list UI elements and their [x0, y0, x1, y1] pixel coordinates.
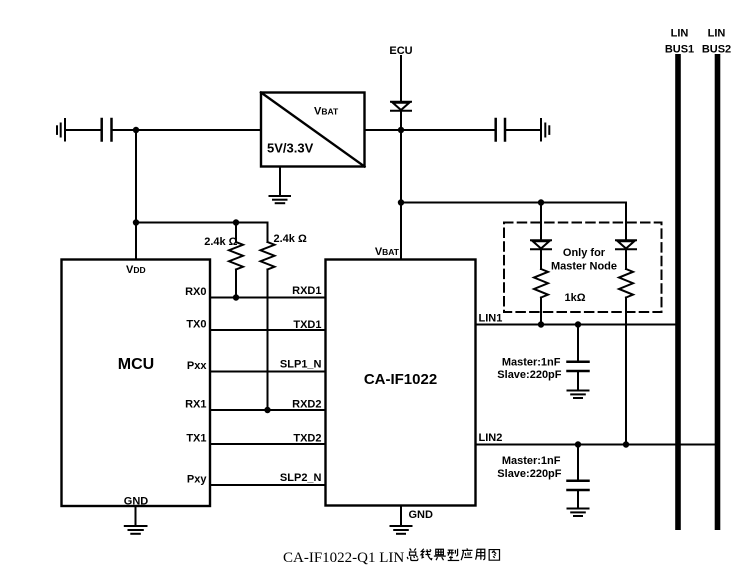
svg-text:RX0: RX0	[185, 286, 206, 298]
svg-text:LIN1: LIN1	[479, 313, 503, 325]
svg-text:CA-IF1022-Q1 LIN: CA-IF1022-Q1 LIN	[283, 550, 404, 566]
wire node to regulator U1	[136, 129, 261, 131]
ground top-right	[541, 119, 549, 141]
node VBAT branch junction	[398, 199, 404, 205]
node R1 top junction	[233, 219, 239, 225]
CJK glyph xing	[447, 549, 459, 561]
svg-text:TXD1: TXD1	[293, 319, 321, 331]
svg-text:BUS1: BUS1	[665, 44, 694, 56]
svg-text:Slave:220pF: Slave:220pF	[497, 468, 561, 480]
label LIN BUS1	[665, 28, 694, 56]
wire LIN2	[476, 444, 718, 446]
ground top-left	[57, 119, 65, 141]
wire C1 to node	[113, 129, 137, 131]
node LIN1-C3 junction	[575, 321, 581, 327]
CJK glyph dian	[434, 549, 446, 560]
CJK glyph xian	[421, 549, 432, 560]
CA-IF1022 box U2	[326, 260, 476, 506]
svg-text:Pxy: Pxy	[187, 474, 207, 486]
svg-text:5V/3.3V: 5V/3.3V	[267, 141, 314, 156]
U2 ground stem	[400, 506, 402, 526]
svg-text:VBAT: VBAT	[314, 106, 339, 118]
node resistor-rail junction	[133, 219, 139, 225]
node LIN2-R4 junction	[623, 441, 629, 447]
label Only for Master Node	[551, 247, 617, 273]
MCU ground stem	[135, 506, 137, 526]
svg-text:RXD1: RXD1	[292, 285, 321, 297]
wire ground to C1	[65, 129, 101, 131]
wire resistor rail	[136, 222, 268, 224]
wire Pxx-SLP1_N	[210, 371, 326, 373]
svg-text:TX1: TX1	[186, 433, 206, 445]
node R2 bottom junction	[264, 407, 270, 413]
wire U1 to VBAT node	[365, 129, 402, 131]
svg-text:2.4k Ω: 2.4k Ω	[274, 233, 307, 245]
svg-text:LIN: LIN	[708, 28, 726, 40]
diode D3	[616, 240, 636, 249]
wire TX0-TXD1	[210, 329, 326, 331]
resistor R4	[619, 269, 633, 298]
wire LIN1 to C3	[577, 325, 579, 362]
svg-text:TX0: TX0	[186, 319, 206, 331]
wire Pxy-SLP2_N	[210, 484, 326, 486]
svg-text:1kΩ: 1kΩ	[565, 292, 586, 304]
diode D1	[391, 102, 411, 111]
node LIN2-C4 junction	[575, 441, 581, 447]
resistor R1	[229, 223, 243, 298]
node left diode top junction	[538, 199, 544, 205]
svg-text:Master:1nF: Master:1nF	[502, 455, 561, 467]
CJK glyph zong	[407, 548, 418, 560]
wire RX0-RXD1	[210, 297, 326, 299]
wire R4 to LIN2	[625, 298, 627, 445]
node VBAT junction	[398, 127, 404, 133]
svg-text:Master Node: Master Node	[551, 261, 617, 273]
wire D2 to R3	[540, 249, 542, 269]
svg-text:Only for: Only for	[563, 247, 606, 259]
svg-text:CA-IF1022: CA-IF1022	[364, 371, 437, 388]
wire VBAT vertical to U2	[400, 130, 402, 260]
svg-text:SLP2_N: SLP2_N	[280, 472, 322, 484]
wire C3 to ground	[577, 371, 579, 390]
svg-text:BUS2: BUS2	[702, 44, 731, 56]
svg-text:VBAT: VBAT	[375, 246, 400, 258]
caption CJK: 总线典型应用图 (drawn strokes)	[407, 548, 499, 560]
resistor R2	[261, 223, 275, 411]
ground under C4	[568, 509, 589, 517]
svg-text:RX1: RX1	[185, 399, 206, 411]
svg-text:SLP1_N: SLP1_N	[280, 359, 322, 371]
wire ECU to diode D1	[400, 56, 402, 102]
node R1 bottom junction	[233, 294, 239, 300]
dashed box only-for-master-node	[504, 223, 662, 313]
svg-text:2.4k Ω: 2.4k Ω	[204, 236, 237, 248]
node VDD-rail junction	[133, 127, 139, 133]
capacitor C1	[102, 119, 112, 141]
svg-text:GND: GND	[409, 509, 434, 521]
wire VBAT branch to master-node circuit	[401, 203, 626, 241]
capacitor C4	[568, 481, 589, 490]
MCU box	[62, 260, 211, 507]
node LIN1-R3 junction	[538, 321, 544, 327]
svg-text:LIN: LIN	[671, 28, 689, 40]
svg-text:Slave:220pF: Slave:220pF	[497, 369, 561, 381]
diode D2	[531, 240, 551, 249]
svg-text:MCU: MCU	[118, 356, 154, 373]
wire C4 to ground	[577, 490, 579, 508]
CJK glyph yong	[476, 549, 485, 559]
wire to diode D2	[540, 203, 542, 241]
capacitor C3	[568, 362, 589, 371]
wire D1 to VBAT node	[400, 111, 402, 130]
CJK glyph tu	[489, 550, 499, 561]
regulator U1 box	[261, 93, 365, 167]
LIN BUS1 line	[675, 54, 681, 530]
ground under MCU	[125, 526, 147, 534]
wire VDD vertical	[135, 130, 137, 260]
wire LIN1	[476, 324, 679, 326]
CJK glyph ying	[461, 548, 472, 560]
wire node to C2	[401, 129, 495, 131]
wire LIN2 to C4	[577, 445, 579, 481]
U1 ground stem	[279, 167, 281, 196]
wire D3 to R4	[625, 249, 627, 269]
capacitor C2	[496, 119, 505, 141]
LIN BUS2 line	[715, 54, 721, 530]
svg-text:LIN2: LIN2	[479, 432, 503, 444]
wire RX1-RXD2	[210, 409, 326, 411]
ground under U2	[391, 526, 412, 534]
svg-text:TXD2: TXD2	[293, 433, 321, 445]
wire TX1-TXD2	[210, 443, 326, 445]
ground under C3	[568, 391, 589, 399]
svg-text:Master:1nF: Master:1nF	[502, 357, 561, 369]
wire C2 to ground	[506, 129, 541, 131]
svg-text:RXD2: RXD2	[292, 399, 321, 411]
ground under U1	[270, 196, 291, 203]
svg-text:Pxx: Pxx	[187, 360, 207, 372]
label LIN BUS2	[702, 28, 731, 56]
resistor R3	[534, 269, 548, 298]
svg-text:VDD: VDD	[126, 264, 146, 276]
wire R3 to LIN1	[540, 298, 542, 325]
